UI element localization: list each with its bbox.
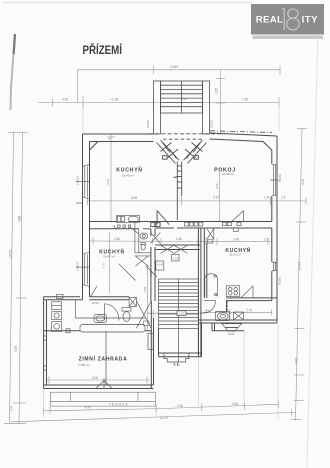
svg-text:30/202: 30/202 (211, 120, 214, 128)
pokoj door triangle (243, 211, 245, 222)
svg-text:8.08: 8.08 (131, 196, 137, 200)
bath-right wall vertical (226, 301, 228, 312)
svg-text:1.70: 1.70 (102, 262, 106, 268)
svg-text:1.85: 1.85 (215, 88, 219, 94)
svg-text:60/150: 60/150 (278, 174, 282, 182)
svg-text:1.5: 1.5 (281, 195, 286, 199)
svg-text:2.98: 2.98 (143, 286, 147, 292)
bath2 door arc (204, 301, 216, 313)
svg-text:4.50: 4.50 (106, 179, 110, 185)
kitchen door marks (207, 229, 214, 240)
logo REAL18ITY box (251, 4, 324, 35)
WG bottom wall (44, 384, 154, 386)
svg-text:3.55: 3.55 (14, 346, 18, 352)
svg-text:2.75: 2.75 (246, 308, 252, 312)
svg-text:1.60: 1.60 (176, 237, 182, 241)
kitchen1 counter (116, 216, 139, 223)
svg-text:+0,45: +0,45 (157, 263, 164, 267)
svg-text:1.5: 1.5 (264, 237, 269, 241)
glazing X marks right (192, 143, 203, 152)
glazing labels (163, 156, 167, 160)
landing dash-dot (210, 131, 272, 133)
door triangle bottom (96, 381, 105, 389)
pokoj vertical dim (219, 172, 221, 222)
svg-text:KUCHYŇ: KUCHYŇ (116, 165, 142, 173)
svg-text:2.909: 2.909 (170, 65, 178, 69)
corridor right wall (197, 228, 199, 357)
logo bottom strip (253, 36, 324, 39)
svg-text:2.60: 2.60 (215, 183, 219, 189)
right diagonal wall (184, 140, 203, 160)
kitchen2 door swing (91, 286, 98, 297)
boiler (234, 312, 244, 320)
svg-text:16.20 m²: 16.20 m² (229, 253, 241, 257)
top dim line (38, 102, 279, 104)
svg-text:1.25: 1.25 (173, 257, 179, 261)
svg-text:4.60: 4.60 (62, 98, 68, 102)
left dim line outer (10, 132, 14, 424)
WG dim (47, 379, 151, 381)
connector box WG-stair (148, 334, 153, 350)
treads (161, 84, 203, 86)
left wall inner (89, 142, 91, 297)
left wing top wall outer (83, 133, 154, 135)
stair dim line (147, 312, 204, 314)
right wing top wall outer (210, 133, 278, 136)
svg-text:120/150: 120/150 (76, 261, 80, 271)
svg-text:60/150: 60/150 (278, 277, 282, 285)
kitchen2 vertical dim (109, 232, 111, 293)
svg-text:2.40: 2.40 (114, 237, 120, 241)
logo 18 numeral (282, 9, 299, 30)
kitchen1 left window (84, 166, 86, 197)
kitchen1 bottom wall (90, 221, 117, 223)
left pillar (154, 81, 161, 134)
WG right wall (150, 301, 152, 389)
bottom dim line 1 (tilted by page warp) (44, 404, 279, 411)
door right kitchen (241, 286, 253, 298)
washbasin (94, 315, 107, 323)
door X below bath1 (135, 256, 148, 266)
left diagonal wall (161, 140, 180, 160)
lower band wall left part (44, 296, 80, 298)
svg-text:REAL: REAL (256, 15, 283, 26)
dimension small labels (9, 65, 306, 420)
svg-text:1.90: 1.90 (242, 98, 248, 102)
dashed sill between pillars (163, 138, 202, 140)
corridor wall tick (174, 177, 179, 178)
WG top line (44, 330, 80, 332)
utility left wall (WG left) (43, 297, 45, 389)
small boxed label (144, 321, 150, 326)
svg-text:56.40 m²: 56.40 m² (122, 173, 134, 177)
svg-text:PŘÍZEMÍ: PŘÍZEMÍ (83, 42, 123, 57)
svg-text:14.50: 14.50 (9, 250, 13, 258)
door swing diagonal upper-left (146, 266, 157, 277)
landing below stairs (164, 353, 189, 362)
bottom right room bottom wall (199, 319, 278, 321)
stair block bottom wall (159, 352, 202, 354)
svg-text:14.41: 14.41 (298, 262, 302, 270)
bath1 walls (134, 222, 136, 253)
interior dim line band y=241 (90, 240, 272, 243)
svg-text:4.50: 4.50 (232, 402, 238, 406)
X box (129, 297, 136, 306)
svg-text:+1.28: +1.28 (110, 98, 118, 102)
scan top edge line (2, 2, 252, 4)
corridor walls (176, 162, 178, 221)
pokoj corner chamfer (263, 142, 272, 151)
hall top wall door marks (161, 245, 175, 253)
svg-text:6.00: 6.00 (92, 376, 98, 380)
scan left crease (11, 34, 16, 110)
right wing top wall inner (210, 139, 264, 142)
svg-text:2.97: 2.97 (213, 195, 219, 199)
bottom overall dim line (11, 412, 296, 421)
radiator hatch pokoj (185, 222, 189, 226)
svg-text:ZIMNÍ ZAHRADA: ZIMNÍ ZAHRADA (79, 354, 128, 362)
stair block right wall (198, 323, 200, 357)
stair left vertical dim (147, 265, 149, 331)
upper stair dim line (78, 69, 281, 71)
stair mid label box (177, 311, 186, 316)
svg-text:77.80 m²: 77.80 m² (78, 363, 90, 367)
left wall outer (82, 134, 84, 300)
svg-text:3.40: 3.40 (233, 237, 239, 241)
boiler arch right kitchen (205, 274, 218, 297)
right kitchen west wall (203, 228, 205, 298)
right wall inner segments (271, 150, 273, 164)
svg-text:30/202: 30/202 (147, 120, 150, 128)
stove right kitchen (226, 286, 239, 297)
center line (181, 81, 183, 113)
hall top wall segment (135, 221, 177, 223)
shaft dashed (227, 301, 229, 312)
counter line (75, 317, 145, 319)
right kitchen bottom wall (226, 297, 277, 299)
hall top wall (155, 244, 200, 246)
bath1 wc (141, 243, 146, 245)
svg-text:4.45: 4.45 (301, 179, 305, 185)
pokoj right window (273, 164, 275, 196)
mullion (105, 331, 107, 385)
bath1 door diagonal (131, 228, 138, 234)
hall hatch boxes (151, 223, 155, 227)
svg-text:ITY: ITY (302, 15, 319, 26)
kitchen1 corner chamfer (90, 142, 99, 151)
svg-text:60/60: 60/60 (228, 332, 235, 336)
kitchen1 vertical dim (110, 134, 112, 222)
door arc utility (104, 304, 106, 321)
left wing top wall inner (90, 141, 154, 143)
landing dashed (149, 133, 222, 135)
bath2 basin counter (216, 312, 230, 321)
pokoj bottom wall (177, 221, 272, 223)
stair center line (178, 279, 180, 362)
kitchen2 left window (84, 254, 86, 284)
svg-text:19.47 m²: 19.47 m² (103, 254, 115, 258)
svg-text:0.45: 0.45 (10, 405, 14, 411)
svg-text:2.32: 2.32 (295, 358, 299, 364)
tick symbol (114, 226, 117, 230)
exterior step below wall (222, 324, 242, 328)
corridor left wall (kitchen2 east) (150, 229, 152, 236)
svg-text:2.50: 2.50 (179, 312, 185, 316)
svg-text:80/197: 80/197 (92, 302, 100, 305)
hall boxed label (172, 255, 180, 262)
bottom-right room dim (201, 311, 272, 313)
porch step right of stair block (212, 330, 244, 332)
corridor-left wall door X (151, 233, 161, 244)
bath1 sink (140, 233, 148, 239)
scan right page edge (307, 28, 318, 468)
right wall outer (276, 136, 278, 323)
stove column (57, 294, 64, 298)
svg-text:TERASA: TERASA (109, 402, 129, 406)
svg-text:120/150: 120/150 (76, 175, 80, 185)
corridor steps (177, 165, 181, 167)
glazing X marks left (161, 143, 172, 152)
stair block left wall (158, 329, 160, 357)
svg-text:14.70: 14.70 (160, 416, 168, 420)
right pillar (203, 81, 210, 134)
svg-text:4.88: 4.88 (18, 216, 22, 222)
svg-text:2.50: 2.50 (177, 404, 183, 408)
svg-text:1.20: 1.20 (264, 195, 270, 199)
wc utility (122, 308, 131, 311)
light extension lines (44, 108, 279, 418)
kitchen2 big door diagonal (119, 264, 136, 281)
left dim line inner (19, 132, 23, 424)
interior long dim line y=201 (87, 200, 306, 202)
door diagonals right (136, 301, 151, 328)
short vertical dim at x=220.5 (220, 70, 222, 134)
stair outline (161, 81, 203, 113)
svg-text:24.39 m²: 24.39 m² (222, 172, 234, 176)
right dim line (296, 129, 303, 421)
hall door triangle (156, 211, 158, 225)
door sill marks (118, 225, 120, 227)
right kitchen window (273, 262, 275, 271)
post (66, 329, 70, 333)
